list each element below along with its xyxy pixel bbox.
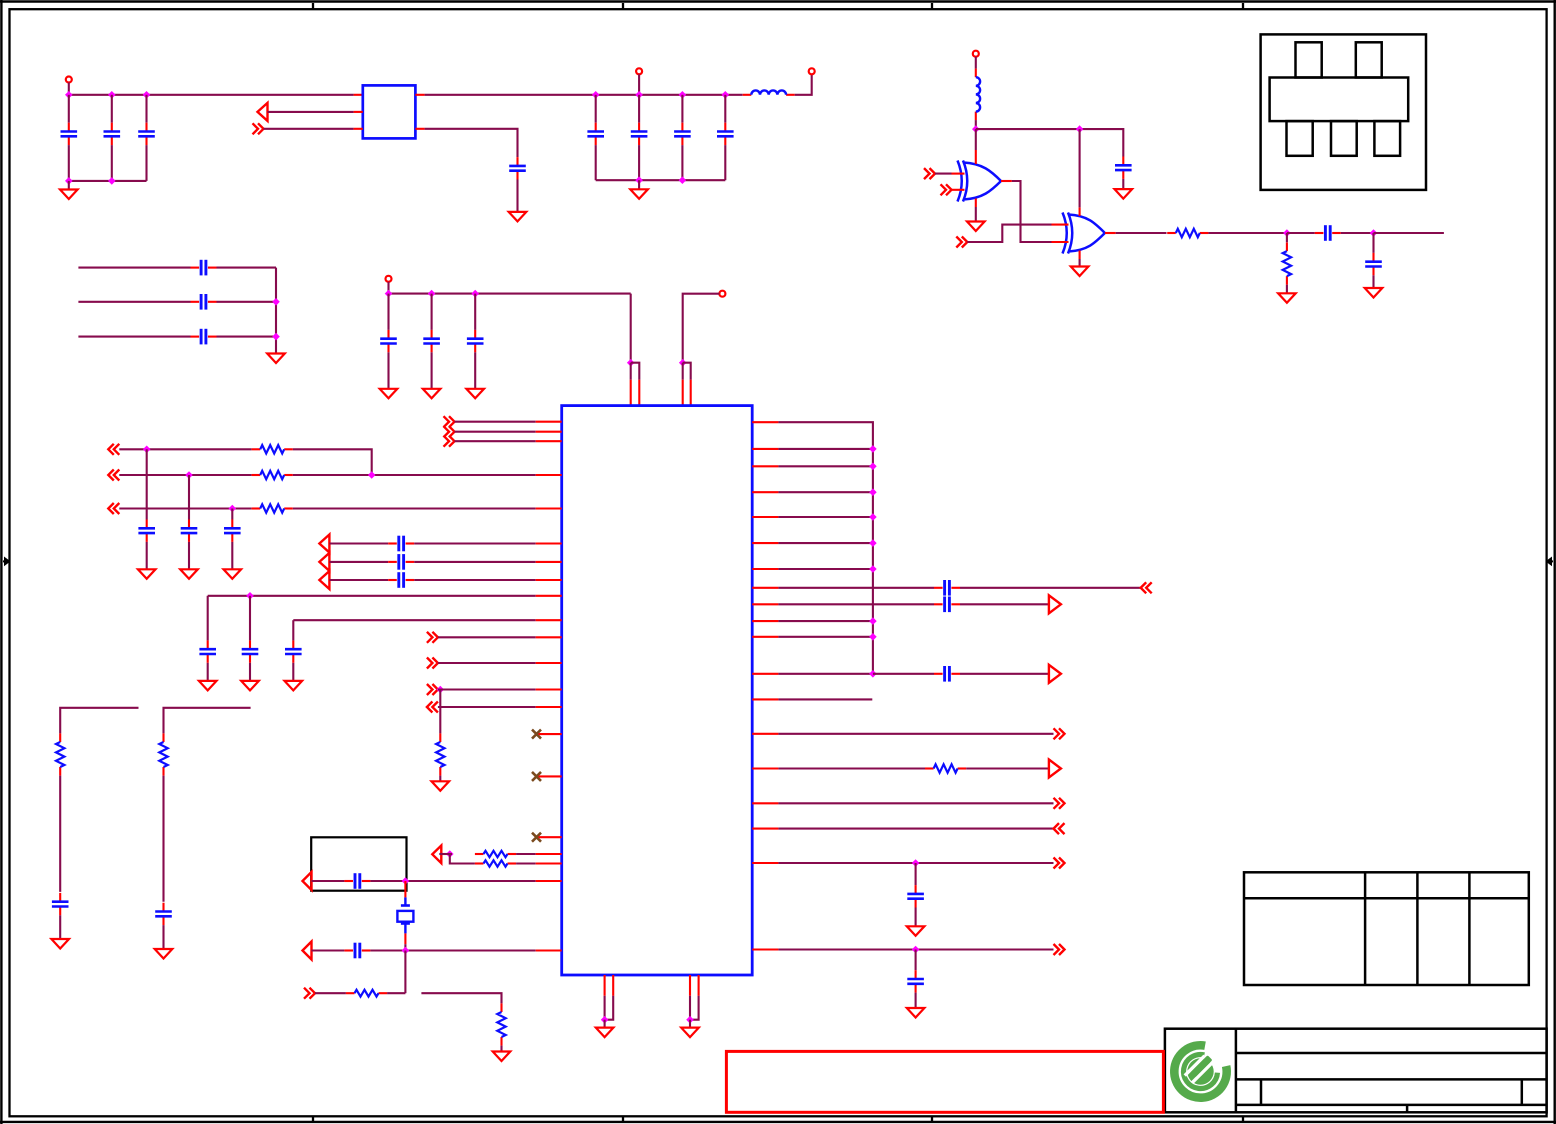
net-arrow A3 bbox=[319, 553, 329, 571]
pin U1 bottom pair 1 pin b bbox=[612, 975, 614, 996]
ground GND3 bbox=[630, 189, 648, 199]
port P2 bbox=[636, 68, 642, 74]
pin U1 Lpin12 bbox=[536, 662, 562, 664]
wire row449 wire a bbox=[119, 448, 251, 450]
wire G2 out wire bbox=[1116, 232, 1167, 234]
inductor L2 bbox=[976, 69, 980, 121]
capacitor C12 bbox=[380, 330, 397, 352]
no-connect X2 bbox=[532, 772, 541, 781]
ground GND5 bbox=[432, 781, 450, 791]
net-arrow A6 bbox=[303, 872, 312, 890]
junction J11 bbox=[679, 176, 687, 184]
wire U1 bottom pair 1 lead b bbox=[605, 996, 614, 1020]
junction JB4 bbox=[869, 513, 877, 521]
junction J18 bbox=[679, 359, 687, 367]
wire xtal row1 wire b bbox=[370, 880, 535, 882]
ground GND2 bbox=[509, 212, 527, 222]
capacitor C5 bbox=[587, 123, 604, 145]
wire C2 bottom lead bbox=[111, 145, 113, 181]
capacitor C31 bbox=[907, 970, 924, 992]
net-flag N8 bbox=[427, 702, 438, 713]
wire C3 top lead bbox=[145, 95, 147, 123]
net-flag N-stack3 bbox=[444, 436, 455, 447]
net-arrow A10 bbox=[1049, 760, 1061, 778]
wire C22 bottom lead bbox=[292, 663, 294, 681]
ground GND4 bbox=[267, 354, 285, 364]
capacitor C21 bbox=[242, 640, 259, 662]
pin U1 Rpin-bus5 bbox=[752, 516, 778, 518]
wire C9 left wire bbox=[78, 267, 190, 269]
pin G1 out pin bbox=[1001, 180, 1012, 182]
net-flag N10 bbox=[1141, 582, 1152, 593]
junction J19 bbox=[143, 446, 151, 454]
wire xtal drop bottom bbox=[404, 944, 406, 950]
wire R4 to gnd bbox=[439, 776, 441, 782]
ground GND7 bbox=[51, 939, 69, 949]
wire gnd rail top-mid bbox=[596, 179, 726, 181]
capacitor C11 bbox=[191, 329, 217, 345]
capacitor C13 bbox=[423, 330, 440, 352]
pin U1 Rpin863 bbox=[752, 862, 778, 864]
wire C30 top lead bbox=[915, 863, 917, 885]
wire P4 stem bbox=[387, 282, 389, 294]
pin U1 Rpin-bus9 bbox=[752, 636, 778, 638]
wire xtal row2 wire a bbox=[312, 949, 345, 951]
wire row854 wire a bbox=[439, 853, 452, 855]
wire row863 wire b bbox=[516, 862, 536, 864]
pin Y1 bottom lead bbox=[404, 933, 406, 944]
wire C31 top lead bbox=[915, 950, 917, 971]
ground GND9 bbox=[907, 926, 925, 936]
pin U1 top pin2a bbox=[682, 380, 684, 406]
no-connect X1 bbox=[532, 730, 541, 739]
wire G2 vcc wire bbox=[1079, 129, 1081, 207]
wire net VCC3 bbox=[389, 293, 631, 295]
pin U1 Lpin10 bbox=[536, 619, 562, 621]
junction J9 bbox=[722, 91, 730, 99]
junction J23 bbox=[246, 592, 254, 600]
capacitor C18 bbox=[388, 536, 414, 552]
revision table v1 bbox=[1364, 872, 1367, 985]
title block row3 bbox=[1236, 1104, 1547, 1107]
border outer frame top bbox=[0, 0, 1556, 2]
junction JB8 bbox=[869, 633, 877, 641]
capacitor C15 bbox=[138, 520, 155, 542]
net-flag N11 bbox=[1054, 728, 1065, 739]
net-flag N13 bbox=[1054, 823, 1065, 834]
highlight box bbox=[726, 1051, 1163, 1112]
footprint pad bot3 bbox=[1374, 121, 1400, 156]
wire row508 wire a bbox=[119, 507, 251, 509]
junction J33 bbox=[1370, 229, 1378, 237]
wire U1 top elbow 1 bbox=[631, 363, 640, 380]
wire U1 bottom pair 2 lead b bbox=[690, 996, 699, 1020]
footprint pad top2 bbox=[1356, 42, 1382, 77]
wire G1 vcc wire bbox=[975, 129, 977, 150]
wire C31 bottom lead bbox=[915, 993, 917, 1008]
wire U2 pin2 wire bbox=[268, 111, 354, 113]
pin G2 vcc pin bbox=[1079, 207, 1081, 216]
ground GND-C15 bbox=[138, 569, 156, 579]
wire Rrow828 wire bbox=[778, 828, 1053, 830]
footprint body bbox=[1270, 78, 1409, 122]
port P4 bbox=[386, 276, 392, 282]
wire branch1 mid bbox=[59, 776, 61, 892]
wire C3 bottom lead bbox=[145, 145, 147, 181]
pin U1 Lpin9 bbox=[536, 595, 562, 597]
pin G2 in1 pin bbox=[1052, 224, 1069, 226]
junction J4 bbox=[65, 177, 73, 185]
revision table header line bbox=[1244, 897, 1529, 900]
title block v1 bbox=[1260, 1079, 1263, 1105]
capacitor C24 bbox=[344, 943, 370, 959]
wire Rrow604 wire a bbox=[778, 603, 934, 605]
capacitor C26 bbox=[155, 903, 172, 925]
ground GND-C13 bbox=[423, 389, 441, 399]
pin U1 Lpin1 bbox=[536, 421, 562, 423]
capacitor C9 bbox=[191, 260, 217, 276]
wire row637 wire bbox=[438, 636, 536, 638]
wire G2 in1 wire bbox=[967, 225, 1051, 242]
capacitor C2 bbox=[104, 123, 121, 145]
resistor R7 bbox=[346, 990, 387, 997]
wire row475 wire a bbox=[119, 474, 251, 476]
pin U1 bottom pair 2 pin a bbox=[689, 975, 691, 996]
footprint pad bot2 bbox=[1331, 121, 1357, 156]
wire C15 top lead bbox=[146, 449, 148, 519]
capacitor C17 bbox=[224, 520, 241, 542]
capacitor C23 bbox=[344, 873, 370, 889]
net-arrow A5 bbox=[432, 846, 441, 864]
junction J32 bbox=[1283, 229, 1291, 237]
wire Rrow bus 2 bbox=[778, 448, 873, 450]
wire U1 bottom pair 2 lead a bbox=[689, 996, 691, 1020]
wire row663 wire bbox=[438, 662, 536, 664]
net-flag N5 bbox=[427, 632, 438, 643]
junction J31 bbox=[1076, 125, 1084, 133]
ground GND10 bbox=[907, 1008, 925, 1018]
junction J26 bbox=[402, 877, 410, 885]
pin U1 Lpin5 bbox=[536, 507, 562, 509]
junction J1 bbox=[65, 91, 73, 99]
wire Rrow bus 5 bbox=[778, 516, 873, 518]
wire series trio bus bbox=[275, 268, 277, 354]
wire C21 bottom lead bbox=[249, 663, 251, 681]
wire net VCC top-mid bbox=[425, 94, 743, 96]
wire C34 top lead bbox=[1372, 233, 1374, 253]
wire Rrow604 wire b bbox=[960, 603, 1049, 605]
net-flag N1 bbox=[253, 123, 264, 134]
wire U1 top pin1a lead bbox=[630, 363, 632, 380]
pin U2 pin5 stub bbox=[415, 128, 424, 130]
pin U1 bottom pair 1 pin a bbox=[604, 975, 606, 996]
capacitor C34 bbox=[1365, 253, 1382, 275]
pin U1 Lpin2 bbox=[536, 431, 562, 433]
wire C10 left wire bbox=[78, 301, 190, 303]
junction J12 bbox=[272, 298, 280, 306]
junction J2 bbox=[108, 91, 116, 99]
wire row707 wire bbox=[438, 706, 536, 708]
wire C21 drop bbox=[249, 596, 251, 641]
pin U1 Rpin768 bbox=[752, 767, 778, 769]
pin U1 Rpin587 bbox=[752, 587, 778, 589]
resistor R10 bbox=[159, 733, 167, 775]
wire G1 out wire bbox=[1012, 181, 1052, 242]
pin U1 Rpin-bus2 bbox=[752, 448, 778, 450]
ground GND12 bbox=[967, 222, 985, 232]
resistor R6 bbox=[475, 860, 516, 866]
resistor R11 bbox=[925, 764, 966, 772]
junction J13 bbox=[272, 333, 280, 341]
pin U1 Rpin-bus7 bbox=[752, 568, 778, 570]
wire C6 bottom lead bbox=[638, 145, 640, 180]
footprint pad top1 bbox=[1296, 42, 1322, 77]
wire Rrow587 wire b bbox=[960, 587, 1141, 589]
wire C13 top lead bbox=[431, 294, 433, 330]
junction J14 bbox=[385, 290, 393, 298]
ground GND13 bbox=[1071, 267, 1089, 277]
wire Rrow587 wire a bbox=[778, 587, 934, 589]
pin U1 Rpin604 bbox=[752, 603, 778, 605]
capacitor C7 bbox=[674, 123, 691, 145]
junction J30 bbox=[972, 125, 980, 133]
junction J20 bbox=[185, 471, 193, 479]
border outer frame right bbox=[1553, 0, 1555, 1124]
capacitor C22 bbox=[285, 640, 302, 662]
wire arrow row2 wire a bbox=[329, 561, 388, 563]
net-flag N12 bbox=[1054, 798, 1065, 809]
wire Rrow bus 9 bbox=[778, 636, 873, 638]
junction J28 bbox=[912, 859, 920, 867]
capacitor C8 bbox=[717, 123, 734, 145]
wire C6 top lead bbox=[638, 95, 640, 123]
wire net VCC top-left bbox=[69, 94, 354, 96]
junction J-bottom pair 2 bbox=[686, 1016, 694, 1024]
ground GND-C17 bbox=[224, 569, 242, 579]
resistor R9 bbox=[56, 733, 64, 775]
capacitor C25 bbox=[52, 893, 69, 915]
wire out net tail bbox=[1374, 232, 1444, 234]
pin G2 out pin bbox=[1105, 232, 1116, 234]
net-arrow A4 bbox=[319, 571, 329, 589]
capacitor C20 bbox=[388, 572, 414, 588]
wire U2 out to C4 bbox=[425, 129, 518, 157]
wire U1 Lrow2 wire bbox=[455, 431, 536, 433]
wire Rrow bus 6 bbox=[778, 542, 873, 544]
net-arrow A1 bbox=[258, 103, 268, 121]
ground GND-C21 bbox=[241, 681, 259, 691]
wire U1 top feed 2 bbox=[683, 294, 720, 363]
port P5 bbox=[719, 291, 725, 297]
wire GND1 stem bbox=[68, 181, 70, 190]
pin U2 pin3 stub bbox=[354, 128, 363, 130]
wire C8 top lead bbox=[724, 95, 726, 123]
footprint outline bbox=[1261, 34, 1426, 190]
wire C13 bottom lead bbox=[431, 352, 433, 389]
junction J21 bbox=[368, 471, 376, 479]
wire C20 drop bbox=[207, 596, 209, 641]
border centre arrow right bbox=[1546, 557, 1554, 567]
xor gate G1 bbox=[958, 161, 1002, 202]
wire U1 Lrow1 wire bbox=[455, 421, 536, 423]
wire G1 in1 wire bbox=[935, 173, 952, 175]
net-flag N3 bbox=[108, 470, 119, 481]
wire branch1 bot bbox=[59, 915, 61, 939]
resistor R4 bbox=[436, 733, 444, 775]
wire row854 wire b bbox=[516, 853, 536, 855]
wire Rrow673 wire b bbox=[960, 673, 1049, 675]
wire U1 bottom pair 1 gnd stem bbox=[604, 1020, 606, 1028]
wire branch2 mid bbox=[162, 776, 164, 902]
resistor R5 bbox=[475, 851, 516, 857]
capacitor C3 bbox=[138, 123, 155, 145]
net-flag N18 bbox=[956, 237, 967, 248]
wire xor vcc rail bbox=[976, 129, 1124, 156]
ground GND-C14 bbox=[466, 389, 484, 399]
pin U1 bottom pair 2 pin b bbox=[698, 975, 700, 996]
wire U1 bottom pair 1 lead a bbox=[604, 996, 606, 1020]
junction J24 bbox=[437, 686, 445, 694]
pin U1 Lpin3 bbox=[536, 440, 562, 442]
wire P2 stem bbox=[638, 74, 640, 95]
wire R7 wire a bbox=[315, 992, 346, 994]
wire J32 to C33 bbox=[1287, 232, 1315, 234]
revision table v3 bbox=[1468, 872, 1471, 985]
junction J6 bbox=[592, 91, 600, 99]
wire C33 to J33 bbox=[1341, 232, 1374, 234]
ground GND-bottom pair 2 bbox=[681, 1028, 699, 1038]
pin U1 Lpin-nc2 bbox=[539, 775, 562, 777]
pin U1 Lpin16 bbox=[536, 862, 562, 864]
ground GND-C20 bbox=[199, 681, 217, 691]
wire Rrow bus 4 bbox=[778, 491, 873, 493]
border zone tick bottom 3 bbox=[931, 1116, 933, 1121]
wire row508 wire b bbox=[293, 507, 536, 509]
pin U1 Lpin6 bbox=[536, 542, 562, 544]
junction JB9 bbox=[869, 670, 877, 678]
pin U1 top pin1b bbox=[638, 380, 640, 406]
wire R4 drop bbox=[439, 690, 441, 734]
title block v3 bbox=[1406, 1105, 1409, 1112]
wire C17 bottom lead bbox=[231, 542, 233, 569]
wire R13 to gnd bbox=[1286, 285, 1288, 294]
capacitor C19 bbox=[388, 554, 414, 570]
capacitor C29 bbox=[934, 666, 960, 682]
wire Rrow bus 10 bbox=[778, 673, 873, 675]
net-flag N17 bbox=[941, 184, 952, 195]
wire C32 bottom lead bbox=[1122, 179, 1124, 189]
wire arrow row1 wire b bbox=[414, 542, 536, 544]
junction J29 bbox=[912, 946, 920, 954]
wire Rrow803 wire bbox=[778, 802, 1053, 804]
wire Rrow699 wire bbox=[778, 698, 872, 700]
resistor R8 bbox=[497, 1003, 505, 1045]
wire C10 right wire bbox=[217, 301, 277, 303]
net-flag N-stack1 bbox=[444, 416, 455, 427]
net-flag N4 bbox=[108, 503, 119, 514]
wire C14 top lead bbox=[474, 294, 476, 330]
wire xtal net drop bbox=[404, 951, 406, 994]
ferrite/filter U2 bbox=[363, 85, 416, 138]
wire C2 top lead bbox=[111, 95, 113, 123]
capacitor C28 bbox=[934, 597, 960, 613]
pin U2 pin1 stub bbox=[354, 94, 363, 96]
junction J3 bbox=[143, 91, 151, 99]
pin U1 top pin1a bbox=[630, 380, 632, 406]
wire Rrow bus 7 bbox=[778, 568, 873, 570]
footprint pad bot1 bbox=[1287, 121, 1313, 156]
wire C12 top lead bbox=[387, 294, 389, 330]
net-flag N14 bbox=[1054, 858, 1065, 869]
wire row863 elbow bbox=[450, 854, 475, 864]
net-arrow A7 bbox=[303, 942, 312, 960]
wire P1 stem bbox=[68, 83, 70, 95]
pin U1 Lpin-nc1 bbox=[539, 733, 562, 735]
revision table v2 bbox=[1416, 872, 1419, 985]
IC U1 bbox=[562, 406, 753, 975]
junction JB2 bbox=[869, 463, 877, 471]
wire Rrow bus 8 bbox=[778, 620, 873, 622]
border zone tick top 1 bbox=[312, 3, 314, 9]
wire row620 wire bbox=[293, 619, 535, 621]
border zone tick bottom 2 bbox=[622, 1116, 624, 1121]
pin U1 Rpin-bus8 bbox=[752, 620, 778, 622]
pin U1 Rpin699 bbox=[752, 698, 778, 700]
border outer frame bottom bbox=[0, 1121, 1556, 1123]
wire branch1 top bbox=[60, 708, 138, 734]
pin U1 Rpin828 bbox=[752, 828, 778, 830]
net-flag N6 bbox=[427, 658, 438, 669]
pin G2 gnd pin bbox=[1079, 251, 1081, 260]
wire row595 wire bbox=[208, 595, 536, 597]
wire U1 top pin2a lead bbox=[682, 363, 684, 380]
pin U1 Lpin18 bbox=[536, 949, 562, 951]
pin G2 in2 pin bbox=[1052, 241, 1069, 243]
net-flag N15 bbox=[1054, 944, 1065, 955]
net-flag N9 bbox=[304, 988, 315, 999]
title block v2 bbox=[1521, 1079, 1524, 1105]
junction J25 bbox=[446, 850, 454, 858]
ground GND-C16 bbox=[180, 569, 198, 579]
junction JB6 bbox=[869, 565, 877, 573]
capacitor C30 bbox=[907, 885, 924, 907]
junction J27 bbox=[402, 947, 410, 955]
wire G2 gnd wire bbox=[1079, 259, 1081, 267]
pin U2 pin4 stub bbox=[415, 94, 424, 96]
pin U1 Lpin7 bbox=[536, 561, 562, 563]
pin U1 Rpin733 bbox=[752, 733, 778, 735]
no-connect X3 bbox=[532, 833, 541, 842]
title block row2 bbox=[1236, 1078, 1547, 1081]
title block logo cell bbox=[1235, 1029, 1238, 1113]
ground GND11 bbox=[1115, 189, 1133, 199]
net-flag N7 bbox=[427, 684, 438, 695]
pin U1 Lpin8 bbox=[536, 579, 562, 581]
port P6 bbox=[973, 51, 979, 57]
wire G1 gnd wire bbox=[975, 207, 977, 222]
port P1 bbox=[66, 77, 72, 83]
net-flag N16 bbox=[924, 168, 935, 179]
ground GND-C12 bbox=[380, 389, 398, 399]
resistor R13 bbox=[1283, 243, 1291, 285]
capacitor C4 bbox=[509, 157, 526, 179]
wire C16 top lead bbox=[188, 475, 190, 520]
wire C22 drop bbox=[292, 620, 294, 640]
title block row1 bbox=[1236, 1052, 1547, 1055]
wire branch2 top bbox=[164, 708, 251, 734]
wire Rrow768 wire a bbox=[778, 767, 925, 769]
wire C34 bottom lead bbox=[1372, 275, 1374, 288]
